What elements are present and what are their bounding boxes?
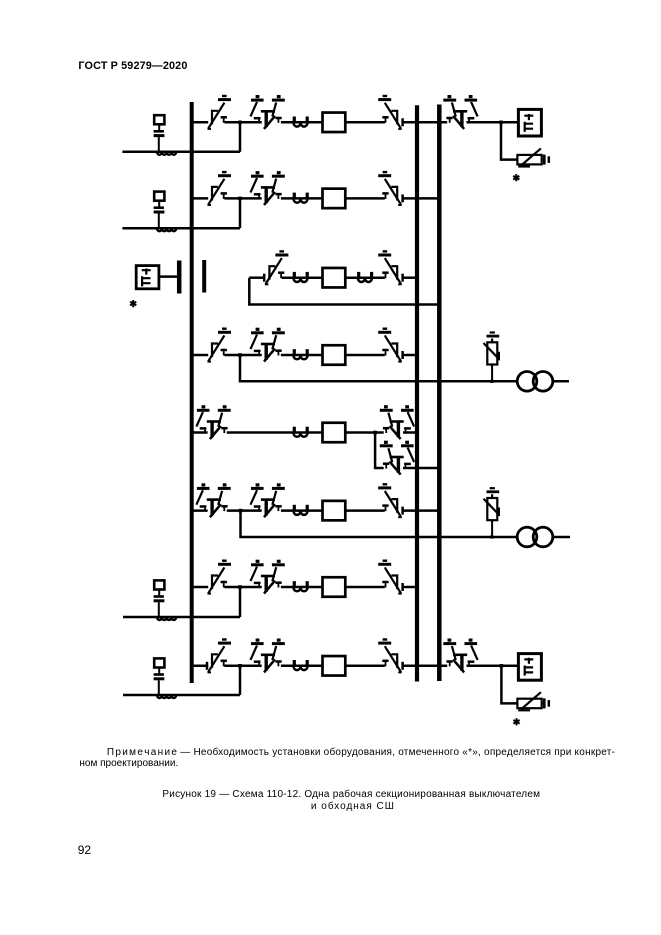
surge arrester FV-TH2 bbox=[517, 692, 548, 710]
power transformer T1 bbox=[517, 372, 553, 392]
feeder line W7 bbox=[123, 616, 240, 619]
wire bbox=[281, 509, 323, 512]
node junction bbox=[373, 431, 377, 435]
disconnector QS7-3 with earthing switch bbox=[378, 561, 402, 594]
surge arrester FV6 with earth bbox=[484, 488, 500, 538]
disconnector QS8-3 with earthing switch bbox=[378, 640, 402, 673]
wire riser bbox=[239, 121, 242, 152]
wire bbox=[281, 354, 323, 357]
bypass circuit breaker QO bbox=[323, 423, 346, 443]
page number bbox=[78, 843, 91, 857]
wire to busbar A bbox=[403, 586, 418, 589]
circuit breaker Q2 bbox=[323, 189, 346, 209]
wire bbox=[281, 665, 323, 668]
wire riser bbox=[239, 586, 242, 617]
wire transformer terminal bbox=[553, 536, 570, 539]
wire to busbar B bbox=[403, 197, 441, 200]
asterisk mark bbox=[513, 174, 519, 181]
disconnector QS4-2 with two earthing switches bbox=[251, 329, 285, 361]
wire bbox=[345, 354, 385, 357]
node junction bbox=[238, 664, 242, 668]
surge arrester FV4 with earth bbox=[484, 333, 500, 383]
terminal tick bbox=[402, 118, 404, 126]
wire bus to disconnector bbox=[192, 665, 209, 668]
feeder line W8 bbox=[123, 694, 240, 697]
circuit breaker Q4 bbox=[323, 345, 346, 365]
disconnector QS-TH2 with two earthing switches bbox=[443, 640, 477, 672]
wire bbox=[282, 276, 323, 279]
voltage transformer TV2 box bbox=[518, 654, 541, 681]
note paragraph line 2 bbox=[79, 759, 178, 769]
figure caption line 2 bbox=[311, 802, 395, 812]
wire TH to bus stub bbox=[159, 275, 179, 278]
wire across busbars to TH bay bbox=[403, 665, 448, 668]
terminal tick bbox=[402, 583, 404, 591]
working busbar section 1 (vertical A) bbox=[415, 105, 419, 681]
disconnector QS2-2 with two earthing switches bbox=[251, 173, 285, 205]
wire bbox=[345, 586, 385, 589]
terminal tick bbox=[402, 351, 404, 359]
current transformer TA4 bbox=[294, 349, 308, 359]
wire bbox=[224, 121, 261, 124]
disconnector QS1-2 with two earthing switches bbox=[251, 97, 285, 129]
voltage transformer TV1 box bbox=[518, 109, 541, 136]
terminal tick bbox=[402, 507, 404, 515]
terminal tick bbox=[402, 194, 404, 202]
disconnector QSO1 with two earthing switches bbox=[196, 407, 230, 439]
U loop wire to busbar B bbox=[249, 278, 440, 305]
section circuit breaker QB bbox=[323, 268, 346, 288]
disconnector QS4-3 with earthing switch bbox=[378, 329, 402, 362]
wire to busbar A bbox=[403, 431, 418, 434]
bypass busbar (left vertical) bbox=[190, 102, 194, 683]
disconnector QSO3 to section B with two earthing switches bbox=[380, 442, 414, 474]
node junction bbox=[238, 197, 242, 201]
circuit breaker Q7 bbox=[323, 577, 346, 597]
current transformer TA7 bbox=[294, 581, 308, 591]
header text ГОСТ Р 59279—2020 bbox=[78, 60, 187, 72]
asterisk mark bbox=[513, 718, 519, 725]
wire riser bbox=[239, 665, 242, 695]
disconnector QS1-3 with earthing switch bbox=[378, 96, 402, 129]
drop wire to lower disconnector bbox=[375, 433, 384, 469]
terminal tick bbox=[402, 274, 404, 282]
wire bbox=[249, 276, 264, 279]
figure caption line 1 bbox=[162, 790, 540, 800]
node junction on busbar B bbox=[438, 466, 442, 470]
disconnector QS6-1 with two earthing switches bbox=[196, 485, 230, 517]
circuit breaker Q1 bbox=[323, 113, 346, 133]
power transformer T2 bbox=[517, 527, 553, 547]
node junction bbox=[238, 121, 242, 125]
terminal tick bbox=[402, 662, 404, 670]
wire transformer terminal bbox=[553, 380, 569, 383]
node junction bbox=[239, 509, 243, 513]
wire across busbars to TH bay bbox=[403, 121, 448, 124]
node junction on busbar B bbox=[438, 197, 442, 201]
note paragraph line 1 bbox=[107, 748, 615, 758]
node junction bbox=[238, 353, 242, 357]
wire bbox=[345, 431, 383, 434]
feeder line W2 bbox=[122, 227, 240, 230]
wire bbox=[281, 121, 323, 124]
current transformer TA8 bbox=[294, 660, 308, 670]
disconnector QS-TH1 with two earthing switches bbox=[443, 97, 477, 129]
wire bbox=[224, 586, 261, 589]
wire bus to disconnector bbox=[192, 509, 208, 512]
asterisk mark bbox=[130, 300, 136, 307]
current transformer TA3-2 bbox=[358, 272, 372, 282]
disconnector QS2-3 with earthing switch bbox=[378, 172, 402, 205]
coupling capacitor + line trap bbox=[154, 192, 177, 232]
wire bbox=[224, 197, 261, 200]
wire to busbar B bbox=[403, 467, 441, 470]
wire bbox=[227, 431, 323, 434]
disconnector QSB2 with earthing switch bbox=[378, 251, 402, 284]
coupling capacitor + line trap bbox=[154, 658, 177, 698]
wire bbox=[345, 509, 385, 512]
current transformer TA1 bbox=[294, 117, 308, 127]
voltage transformer TV box on bypass bus bbox=[136, 266, 159, 289]
disconnector QS8-1 with earthing switch bbox=[208, 640, 232, 673]
wire riser bbox=[239, 197, 242, 228]
wire bus to disconnector bbox=[192, 586, 209, 589]
terminal tick bbox=[206, 662, 208, 670]
wire down to arrester bbox=[501, 122, 517, 159]
node junction bbox=[238, 585, 242, 589]
terminal tick bbox=[263, 274, 265, 282]
circuit breaker Q8 bbox=[323, 656, 346, 676]
current transformer TA6 bbox=[294, 505, 308, 515]
wire bus to disconnector bbox=[192, 354, 209, 357]
current transformer TA3-1 bbox=[294, 272, 308, 282]
disconnector QS4-1 with earthing switch bbox=[208, 329, 232, 362]
wire across A to busbar B bbox=[403, 509, 441, 512]
bus connection stub bar right bbox=[202, 260, 206, 293]
disconnector QS7-1 with earthing switch bbox=[208, 561, 232, 594]
node junction on busbar B bbox=[438, 303, 442, 307]
feeder line W1 bbox=[122, 151, 240, 154]
bus connection stub bar left bbox=[177, 261, 182, 294]
node junction bbox=[500, 664, 504, 668]
current transformer TA2 bbox=[294, 193, 308, 203]
circuit breaker Q6 bbox=[323, 501, 346, 520]
node junction bbox=[499, 121, 503, 125]
disconnector QS1-1 with earthing switch bbox=[208, 96, 232, 129]
wire bus to disconnector bbox=[192, 197, 209, 200]
wire to busbar A bbox=[403, 354, 418, 357]
disconnector QSB1 with earthing switch bbox=[265, 251, 289, 284]
disconnector QSO2 to section A with two earthing switches bbox=[380, 407, 414, 439]
disconnector QS8-2 with two earthing switches bbox=[251, 640, 285, 672]
wire bbox=[467, 121, 519, 124]
disconnector QS2-1 with earthing switch bbox=[208, 172, 232, 205]
wire bbox=[224, 354, 261, 357]
wire bbox=[467, 665, 519, 668]
wire bbox=[345, 276, 385, 279]
wire bbox=[345, 665, 385, 668]
wire bbox=[281, 586, 323, 589]
disconnector QS6-3 with earthing switch bbox=[378, 484, 402, 517]
wire bbox=[345, 121, 385, 124]
coupling capacitor + line trap bbox=[154, 580, 177, 620]
transformer branch wire bbox=[240, 355, 517, 381]
wire bbox=[281, 197, 323, 200]
working busbar section 2 (vertical B) bbox=[437, 105, 442, 682]
wire bbox=[345, 197, 385, 200]
disconnector QS7-2 with two earthing switches bbox=[251, 561, 285, 593]
surge arrester FV-TH1 bbox=[517, 148, 548, 166]
wire bbox=[224, 665, 261, 668]
transformer branch wire bbox=[241, 511, 518, 537]
wire down to arrester bbox=[501, 666, 517, 704]
wire bus to disconnector bbox=[192, 121, 209, 124]
disconnector QS6-2 with two earthing switches bbox=[251, 485, 285, 517]
wire bbox=[227, 509, 262, 512]
coupling capacitor + line trap bbox=[154, 115, 177, 155]
current transformer TA5 bbox=[294, 427, 308, 437]
wire to busbar A bbox=[403, 276, 418, 279]
wire bus to disconnector bbox=[192, 431, 208, 434]
